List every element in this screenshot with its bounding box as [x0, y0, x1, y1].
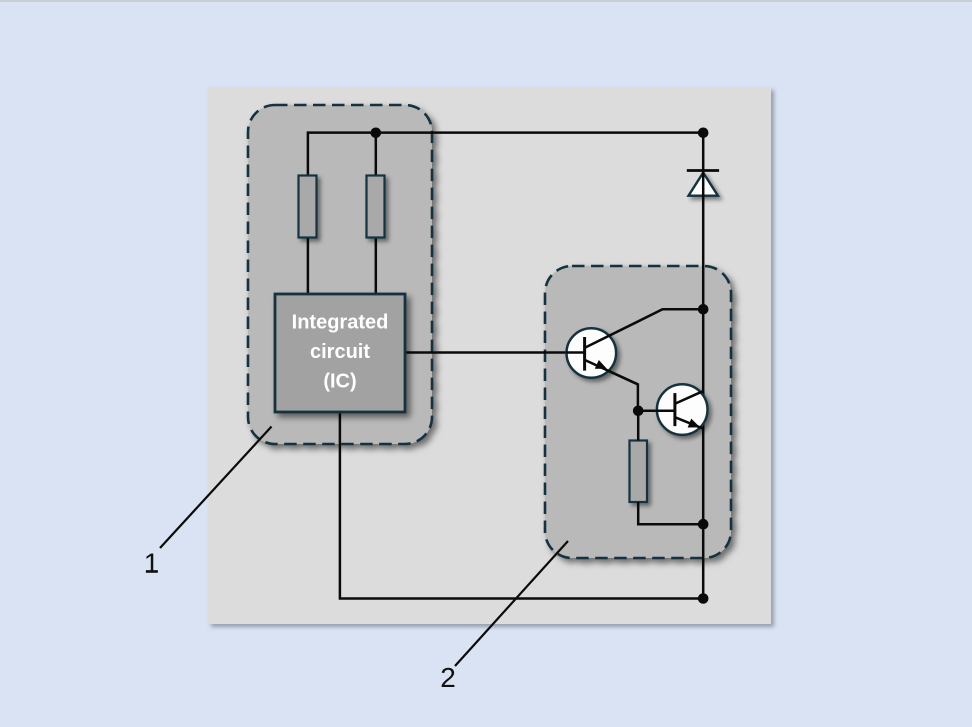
- wire: IC bottom to ground rail: [340, 412, 703, 599]
- node: R3 / bus: [698, 519, 709, 530]
- svg-text:1: 1: [144, 548, 160, 579]
- wire: R2 bottom to IC top: [375, 238, 378, 295]
- redraw Q1 base lead over circle: [566, 351, 585, 354]
- wire: top rail from R1 top to diode branch: [308, 133, 703, 176]
- panel: [208, 87, 771, 624]
- node A: Q1 emitter / Q2 base / R3: [633, 406, 644, 417]
- wire: IC output to Q1 base: [405, 351, 585, 354]
- wire: node A to Q2 base: [638, 410, 675, 413]
- wire: node A to R3 top: [637, 411, 640, 441]
- transistor Q2: [657, 384, 708, 435]
- resistor R2: [367, 176, 385, 238]
- wire: Q1 emitter to node A: [585, 360, 638, 411]
- wire: R2 top to top rail: [375, 133, 378, 176]
- node: ground rail / bus: [698, 593, 709, 604]
- wire: right bus (diode branch, collector/emitter bus): [702, 133, 705, 599]
- transistor Q1: [567, 309, 704, 384]
- label 2 leader: [455, 541, 568, 666]
- svg-text:Integrated: Integrated: [292, 312, 389, 334]
- svg-text:2: 2: [440, 662, 456, 693]
- node: top rail / diode branch: [698, 128, 709, 139]
- wire: R3 bottom to bus: [638, 502, 703, 524]
- diode D1: [687, 171, 719, 196]
- wire: R1 bottom to IC top: [307, 238, 310, 295]
- svg-text:circuit: circuit: [310, 341, 370, 363]
- label 1 leader: [160, 427, 272, 549]
- node: top rail / R2 junction: [371, 128, 382, 139]
- svg-text:(IC): (IC): [323, 371, 356, 393]
- block 1 enclosure (dashed, IC block): [248, 105, 432, 444]
- block 2 enclosure (dashed, transistor block): [545, 266, 731, 558]
- IC box: [275, 294, 405, 412]
- redraw Q2 base lead over circle: [656, 410, 675, 413]
- node: Q1 collector / bus: [698, 304, 709, 315]
- resistor R3: [630, 441, 648, 503]
- resistor R1: [299, 176, 317, 238]
